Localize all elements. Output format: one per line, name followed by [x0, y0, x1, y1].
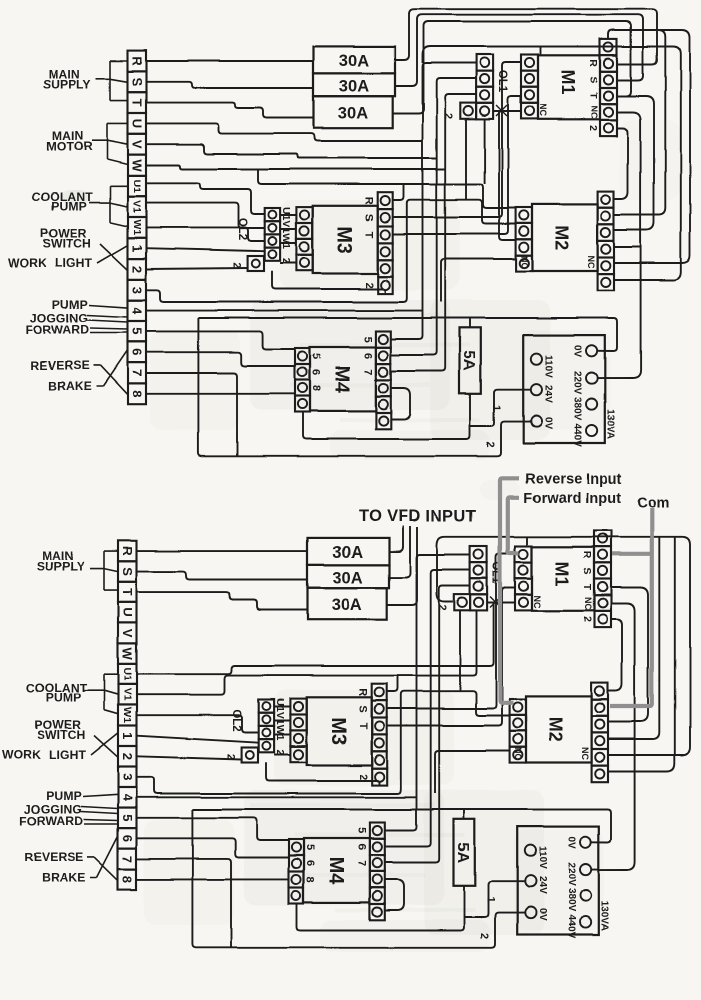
wire primary 0V rail (lower diagram)	[192, 810, 611, 843]
overload relay OL1 reset cell (lower diagram)	[454, 594, 470, 610]
svg-text:5: 5	[130, 328, 145, 335]
svg-text:SWITCH: SWITCH	[37, 728, 86, 742]
svg-text:110V: 110V	[542, 355, 553, 378]
label COOLANT PUMP	[32, 190, 93, 214]
svg-text:7: 7	[120, 855, 135, 862]
svg-text:T: T	[581, 584, 593, 591]
wire M3 terminal S to M1 coil (lower diagram)	[387, 554, 515, 709]
contactor M2 right terminal strip (lower diagram)	[592, 683, 608, 783]
wire pin 5 wire to M4	[146, 331, 295, 349]
label 2 at OL2 reset (lower diagram)	[225, 754, 237, 760]
svg-text:T: T	[357, 723, 369, 730]
svg-text:FORWARD: FORWARD	[26, 323, 90, 337]
wire T phase to fuse F3 (lower diagram)	[137, 592, 308, 609]
wire pin 6 wire to M4	[146, 352, 295, 366]
label NC on M2 right strip (lower diagram)	[580, 747, 590, 760]
svg-text:S: S	[587, 76, 599, 83]
svg-text:6: 6	[304, 860, 316, 866]
wire pin 4 wire (lower diagram)	[137, 796, 417, 798]
wire OL1 terminal 3 / M4 terminal 7 riser	[391, 94, 476, 371]
wire pin 6 wire to M4 (lower diagram)	[137, 838, 290, 857]
svg-text:S: S	[130, 77, 145, 86]
wire M3 bottom return wire (lower diagram)	[266, 762, 379, 785]
svg-text:M2: M2	[552, 225, 572, 250]
svg-text:REVERSE: REVERSE	[24, 850, 83, 864]
svg-text:5A: 5A	[460, 351, 477, 372]
wire OL1 to M1 NC link (lower diagram)	[487, 602, 515, 604]
contactor M3 left terminal strip	[296, 207, 312, 271]
label M3	[333, 226, 355, 254]
svg-text:MOTOR: MOTOR	[47, 139, 93, 153]
wire OL1 terminal 3 / M4 terminal 7 riser (lower diagram)	[385, 586, 470, 863]
labels R S T 2 on M3 right strip	[363, 197, 375, 289]
wire OL1 terminal 2 / M4 terminal 6 riser (lower diagram)	[385, 570, 470, 847]
label 5A (lower diagram)	[454, 842, 471, 863]
wire fuse F2 output rising to VFD input	[389, 526, 410, 578]
contactor M3 body (lower diagram)	[307, 697, 372, 765]
wire OL2 to M3 stub 1 (lower diagram)	[274, 706, 290, 708]
wire pin 2 wire to OL2 reset (lower diagram)	[137, 756, 242, 759]
svg-text:W1: W1	[131, 220, 143, 236]
contactor M2 left terminal strip (lower diagram)	[510, 699, 526, 763]
leaders JOGGING / FORWARD to pin 5 (lower diagram)	[81, 807, 118, 825]
wire M1 R terminal loop to M2	[609, 30, 666, 215]
svg-text:1: 1	[484, 896, 496, 902]
contactor M3 right terminal strip (lower diagram)	[372, 684, 387, 785]
overload relay OL1 terminal strip	[476, 55, 493, 119]
fuse F2 30A	[314, 73, 396, 96]
contactor M2 left terminal strip	[516, 208, 532, 272]
svg-text:NC: NC	[519, 256, 529, 269]
svg-text:2: 2	[442, 113, 454, 119]
labels 5 6 8 on M4 left strip	[310, 353, 322, 391]
wire secondary 0V rail	[198, 318, 530, 456]
svg-text:220V: 220V	[571, 371, 582, 395]
transformer T1 body (lower diagram)	[517, 827, 599, 935]
terminal strip TB1 (lower diagram)	[118, 541, 137, 890]
svg-text:30A: 30A	[333, 569, 364, 587]
svg-text:R: R	[130, 56, 145, 66]
svg-text:5: 5	[120, 814, 135, 821]
wire fuse F3 output to contactor M1 terminal T	[393, 22, 631, 114]
svg-text:4: 4	[120, 794, 135, 802]
wire pin 3 wire to M2 via riser (lower diagram)	[137, 691, 510, 793]
label 2 at OL1 reset (lower diagram)	[436, 604, 448, 610]
svg-text:3: 3	[120, 773, 135, 780]
wire S phase to fuse F2	[146, 82, 314, 88]
svg-text:2: 2	[357, 774, 369, 780]
label wire number 2	[484, 441, 496, 447]
svg-text:5A: 5A	[454, 842, 471, 863]
wire OL2 to M3 stub 2	[280, 228, 296, 230]
label NC on M1 left strip (lower diagram)	[532, 595, 542, 608]
label OL1	[496, 70, 508, 93]
contactor M4 left terminal strip (lower diagram)	[289, 840, 304, 904]
svg-text:30A: 30A	[338, 105, 369, 123]
wire M3 terminal S to M1 coil	[393, 62, 521, 217]
svg-text:5: 5	[310, 353, 322, 359]
labels R S T NC 2 on M1 right strip	[587, 59, 599, 131]
label PUMP	[52, 297, 88, 311]
label M4 (lower diagram)	[325, 857, 347, 886]
label 5A	[460, 351, 477, 372]
svg-text:PUMP: PUMP	[52, 297, 88, 311]
svg-text:380V: 380V	[565, 889, 576, 913]
svg-text:440V: 440V	[565, 915, 576, 939]
label COOLANT PUMP (lower diagram)	[26, 681, 87, 705]
svg-text:24V: 24V	[542, 385, 553, 403]
label NC on M2 right strip	[586, 256, 596, 269]
wire M2 NC feed riser (lower diagram)	[435, 751, 510, 794]
wire top loop branch to M2 (lower diagram)	[608, 537, 659, 739]
overload relay OL1 reset cell	[460, 103, 476, 119]
svg-text:5: 5	[356, 828, 368, 834]
svg-text:0V: 0V	[536, 909, 547, 922]
wire V1 coolant wire to OL2	[146, 203, 265, 228]
svg-text:3: 3	[130, 286, 145, 293]
svg-text:380V: 380V	[571, 397, 582, 421]
svg-text:8: 8	[310, 385, 322, 391]
wire OL1 junction to M2 riser	[499, 112, 516, 240]
wire M1 coil top loop to M2 (lower diagram)	[608, 537, 675, 772]
contactor M1 left terminal strip	[521, 55, 538, 119]
bracket COOLANT PUMP to U1 V1 W1	[89, 186, 128, 227]
label JOGGING (lower diagram)	[24, 803, 82, 817]
svg-text:M4: M4	[331, 365, 353, 394]
contactor M1 right terminal strip (lower diagram)	[594, 530, 611, 627]
svg-text:7: 7	[130, 369, 145, 376]
overload relay OL2 terminal strip (lower diagram)	[259, 700, 274, 753]
svg-text:6: 6	[310, 369, 322, 375]
wire pin 8 wire to M4 terminal 8 (lower diagram)	[137, 878, 290, 880]
wire M1 NC to transformer 220V (lower diagram)	[591, 604, 634, 870]
svg-text:NC: NC	[586, 256, 596, 269]
wire M2 NC stub (lower diagram)	[608, 738, 635, 740]
wire secondary 0V rail (lower diagram)	[192, 810, 524, 948]
wire M2 NC stub	[614, 246, 641, 248]
contactor M4 left terminal strip	[295, 348, 310, 412]
terminal strip TB1 pin labels	[130, 56, 145, 397]
svg-text:LIGHT: LIGHT	[55, 256, 93, 270]
contactor M1 body (lower diagram)	[532, 547, 594, 611]
overload relay OL2 terminal strip	[265, 208, 280, 261]
leaders JOGGING / FORWARD to pin 5	[87, 315, 128, 333]
svg-text:2: 2	[484, 441, 496, 447]
label NC on M1 left strip	[538, 104, 548, 117]
svg-text:SUPPLY: SUPPLY	[37, 559, 85, 573]
contactor M1 left terminal strip (lower diagram)	[515, 546, 532, 610]
svg-text:U1: U1	[131, 179, 143, 193]
contactor M1 right terminal strip	[600, 39, 617, 136]
svg-text:2: 2	[130, 265, 145, 272]
svg-text:6: 6	[120, 835, 135, 842]
wire OL1 terminal 1 / M4 terminal 5 riser	[391, 63, 476, 339]
wire primary 0V rail	[198, 318, 617, 351]
label OL1 (lower diagram)	[490, 561, 502, 584]
ghost lines texture	[250, 315, 480, 910]
labels 0V 220V 380V 440V	[571, 345, 582, 447]
wire M3 terminal R stub (lower diagram)	[387, 676, 398, 692]
wire pin 3 wire to M2 via riser	[146, 200, 516, 302]
label OL2	[236, 218, 248, 240]
svg-text:V: V	[120, 629, 135, 638]
svg-text:PUMP: PUMP	[51, 200, 87, 214]
wire pin 2 wire to OL2 reset	[146, 268, 248, 269]
fuse F1 30A	[314, 46, 396, 73]
svg-text:7: 7	[362, 369, 374, 375]
svg-text:M2: M2	[546, 717, 566, 742]
svg-text:LIGHT: LIGHT	[49, 747, 87, 761]
label M2 (lower diagram)	[546, 717, 566, 742]
labels 110V 24V 0V	[542, 355, 553, 430]
label 2 at OL2 reset	[231, 262, 243, 268]
svg-text:7: 7	[356, 860, 368, 866]
label WORK LIGHT (lower diagram)	[2, 747, 87, 761]
wire M1 NC to transformer 220V	[597, 112, 640, 378]
svg-text:2: 2	[436, 604, 448, 610]
terminal strip TB1 pin labels (lower diagram)	[120, 546, 135, 883]
wire OL1 terminal 1 / M4 terminal 5 riser (lower diagram)	[385, 555, 470, 831]
contactor M1 body	[538, 55, 600, 119]
svg-text:OL2: OL2	[230, 709, 242, 731]
svg-text:110V: 110V	[536, 847, 547, 870]
leader lines POWER SWITCH / WORK LIGHT crossing to pins 1 2 (lower diagram)	[91, 733, 118, 758]
label MAIN SUPPLY	[43, 67, 91, 91]
wire M4 coil return to fuse F4	[303, 394, 470, 439]
wire M3 bottom return wire	[272, 271, 385, 294]
terminal strip TB1	[128, 51, 147, 405]
svg-text:2: 2	[363, 282, 375, 288]
fuse F1 30A (lower diagram)	[308, 538, 390, 565]
wire jumper M4 terminals 4 to 6 (lower diagram)	[385, 880, 404, 911]
svg-text:130VA: 130VA	[604, 409, 615, 439]
overload relay OL2 reset cell	[248, 256, 264, 271]
label wire number 1 (lower diagram)	[484, 896, 496, 902]
label BRAKE (lower diagram)	[42, 871, 86, 885]
svg-text:2: 2	[581, 617, 593, 623]
svg-text:1: 1	[490, 405, 502, 411]
svg-text:WORK: WORK	[2, 747, 41, 761]
svg-text:BRAKE: BRAKE	[48, 379, 92, 393]
leader PUMP to pin 4	[89, 305, 128, 308]
svg-text:6: 6	[356, 844, 368, 850]
svg-text:U1: U1	[121, 667, 133, 681]
svg-text:W: W	[130, 159, 145, 172]
svg-text:0V: 0V	[565, 837, 576, 850]
wire M1 T to M2 elbow	[614, 96, 654, 230]
wire M3 terminal R to OL1 reset riser (lower diagram)	[459, 610, 461, 691]
label M1 (lower diagram)	[552, 561, 572, 586]
svg-text:0V: 0V	[542, 417, 553, 430]
svg-text:PUMP: PUMP	[46, 789, 82, 803]
svg-text:6: 6	[130, 349, 145, 356]
label WORK LIGHT	[8, 256, 93, 270]
svg-text:30A: 30A	[333, 544, 364, 562]
svg-text:TO VFD INPUT: TO VFD INPUT	[359, 508, 477, 526]
wire OL1 reset to M1 top loop (lower diagram)	[437, 537, 690, 755]
wire OL2 to M3 stub 3	[280, 242, 296, 244]
labels 110V 24V 0V (lower diagram)	[536, 847, 547, 922]
wire outer loop to M2	[614, 30, 690, 263]
wire fuse F3 output rising to VFD input	[387, 527, 417, 605]
svg-text:NC: NC	[538, 104, 548, 117]
label wire number 2 (lower diagram)	[478, 933, 490, 939]
wire M3 terminal R stub	[393, 184, 404, 200]
svg-text:5: 5	[304, 844, 316, 850]
label POWER SWITCH (lower diagram)	[34, 718, 85, 742]
wire T phase to fuse F3	[146, 103, 314, 118]
svg-text:M1: M1	[558, 69, 578, 94]
wire W branch to M2 terminal 1	[258, 169, 516, 208]
contactor M2 right terminal strip	[598, 191, 614, 291]
wire fuse F4 top lead	[469, 318, 471, 328]
label Reverse Input	[525, 471, 622, 487]
label 2 at OL1 reset	[442, 113, 454, 119]
wire fuse F4 to transformer 24V (lower diagram)	[464, 881, 525, 917]
wire fuse F1 output rising to VFD input	[389, 526, 403, 552]
svg-text:BRAKE: BRAKE	[42, 871, 86, 885]
labels U1V1W1 2 on M3 left strip (lower diagram)	[274, 699, 286, 756]
svg-text:M3: M3	[327, 717, 349, 745]
svg-text:W1: W1	[121, 707, 133, 723]
wire M1 coil top loop to M2	[423, 47, 681, 281]
svg-text:W: W	[120, 648, 135, 661]
svg-text:PUMP: PUMP	[45, 691, 81, 705]
wire V motor phase to OL1	[146, 144, 437, 158]
wire V1 wire to OL1 reset (lower diagram)	[137, 611, 477, 695]
svg-text:T: T	[130, 99, 145, 107]
contactor M4 right terminal strip	[376, 331, 391, 429]
wire M3 terminal T to M1 (lower diagram)	[387, 588, 515, 726]
wire pin 5 wire to M4 (lower diagram)	[137, 818, 290, 841]
leader PUMP to pin 4 (lower diagram)	[83, 794, 118, 796]
svg-text:130VA: 130VA	[598, 901, 609, 931]
wire pin 1 wire to OL2 (lower diagram)	[137, 736, 259, 743]
fuse F3 30A (lower diagram)	[308, 588, 387, 620]
bracket MAIN MOTOR to U V W	[92, 123, 128, 164]
svg-text:REVERSE: REVERSE	[30, 358, 89, 372]
leader lines POWER SWITCH / WORK LIGHT crossing to pins 1 2	[97, 244, 128, 270]
wire fuse F4 top lead (lower diagram)	[463, 810, 465, 820]
wire pin 1 wire to OL2	[146, 248, 265, 251]
svg-text:8: 8	[130, 390, 145, 397]
label POWER SWITCH	[40, 226, 91, 250]
svg-text:V1: V1	[121, 688, 133, 701]
overload relay OL1 terminal strip (lower diagram)	[470, 546, 487, 610]
wire jumper M4 terminals 4 to 6	[391, 388, 410, 419]
wire pin 4 wire	[146, 310, 423, 312]
labels U1V1W1 2 on M3 left strip	[280, 207, 292, 264]
svg-text:SUPPLY: SUPPLY	[43, 78, 91, 92]
wire fuse F4 to transformer 24V	[470, 390, 531, 426]
svg-text:220V: 220V	[565, 863, 576, 887]
label FORWARD	[26, 323, 90, 337]
scan bleed-through texture	[60, 120, 680, 952]
svg-text:U: U	[120, 608, 135, 617]
wire pin 7 wire to 0V rail	[146, 373, 237, 456]
wire OL1 reset to M2 riser	[484, 119, 486, 184]
label M1	[558, 69, 578, 94]
junction mark at OL1 / M1 NC (lower diagram)	[490, 597, 501, 608]
svg-text:R: R	[120, 546, 135, 556]
contactor M3 right terminal strip	[378, 192, 393, 293]
wire pin 8 wire to M4 terminal 8	[146, 393, 295, 395]
svg-text:1: 1	[130, 245, 145, 252]
svg-text:2: 2	[120, 753, 135, 760]
leaders REVERSE / BRAKE crossing to pins 6 8	[93, 350, 128, 395]
labels R S T NC 2 on M1 right strip (lower diagram)	[581, 551, 593, 623]
wire M1 2 to M2 elbow (lower diagram)	[608, 620, 622, 691]
wire M4 coil return to fuse F4 (lower diagram)	[297, 885, 464, 930]
wire OL2 reset to M3 stub	[280, 262, 296, 264]
contactor M4 right terminal strip (lower diagram)	[370, 823, 385, 921]
transformer T1 body	[523, 335, 605, 443]
svg-text:M1: M1	[552, 561, 572, 586]
wire OL2 to M3 stub 1	[280, 214, 296, 216]
label wire number 1	[490, 405, 502, 411]
label Forward Input	[523, 490, 621, 506]
wire OL2 to M3 stub 2 (lower diagram)	[274, 720, 290, 722]
junction mark at OL1 / M1 NC	[496, 105, 507, 116]
labels 5 6 7 on M4 right strip	[362, 336, 374, 375]
svg-text:8: 8	[304, 876, 316, 882]
wire M1 box top stub (lower diagram)	[526, 537, 528, 547]
wire M3 terminal R to OL1 reset riser	[465, 119, 467, 200]
wire fuse F1 output to contactor M1 terminal R	[395, 9, 657, 64]
bracket MAIN SUPPLY to R S T	[109, 61, 111, 101]
fuse F2 30A (lower diagram)	[308, 565, 390, 588]
svg-text:4: 4	[130, 307, 145, 315]
svg-text:S: S	[357, 705, 369, 712]
bracket COOLANT PUMP to U1 V1 W1 (lower diagram)	[83, 674, 118, 714]
transformer T1 primary terminals 0V 220V 380V 440V (lower diagram)	[580, 837, 591, 928]
svg-text:SWITCH: SWITCH	[43, 237, 92, 251]
wire U1 coolant wire to OL2	[146, 183, 265, 214]
label REVERSE (lower diagram)	[24, 850, 83, 864]
wire fuse F2 output to contactor M1 terminal S	[395, 15, 643, 86]
svg-text:2: 2	[478, 933, 490, 939]
svg-text:8: 8	[120, 876, 135, 883]
wire W1 coolant wire to OL2	[146, 227, 265, 241]
svg-text:Reverse Input: Reverse Input	[525, 471, 622, 487]
svg-text:U: U	[130, 119, 145, 128]
wire R phase to fuse F1 (lower diagram)	[137, 550, 308, 552]
wire Com to M1 and M2 common (highlighted VFD wire)	[610, 508, 652, 706]
svg-text:Forward Input: Forward Input	[523, 490, 621, 506]
wire U motor phase to OL1	[146, 123, 423, 141]
svg-text:T: T	[120, 588, 135, 596]
svg-text:R: R	[581, 551, 593, 559]
svg-text:30A: 30A	[339, 78, 370, 96]
label MAIN SUPPLY (lower diagram)	[37, 549, 85, 573]
wire M1 2 to M2 elbow	[614, 128, 628, 199]
labels 5 6 7 on M4 right strip (lower diagram)	[356, 828, 368, 867]
wire pin 7 wire to 0V rail (lower diagram)	[137, 859, 232, 948]
wire S phase to fuse F2 (lower diagram)	[137, 572, 308, 580]
wire OL1 terminal 2 / M4 terminal 6 riser	[391, 78, 476, 355]
label M4	[331, 365, 353, 394]
label TO VFD INPUT	[359, 508, 477, 526]
wire M1 T to M2 elbow (lower diagram)	[608, 588, 648, 722]
transformer T1 secondary terminals 110V 24V 0V	[531, 354, 542, 427]
label 130VA (lower diagram)	[598, 901, 609, 931]
svg-text:V1: V1	[131, 200, 143, 213]
svg-text:WORK: WORK	[8, 256, 47, 270]
label 130VA	[604, 409, 615, 439]
svg-text:NC: NC	[580, 747, 590, 760]
wire W motor phase to OL1	[146, 165, 445, 169]
wire Reverse Input to M2 coil (highlighted VFD wire)	[500, 478, 519, 703]
